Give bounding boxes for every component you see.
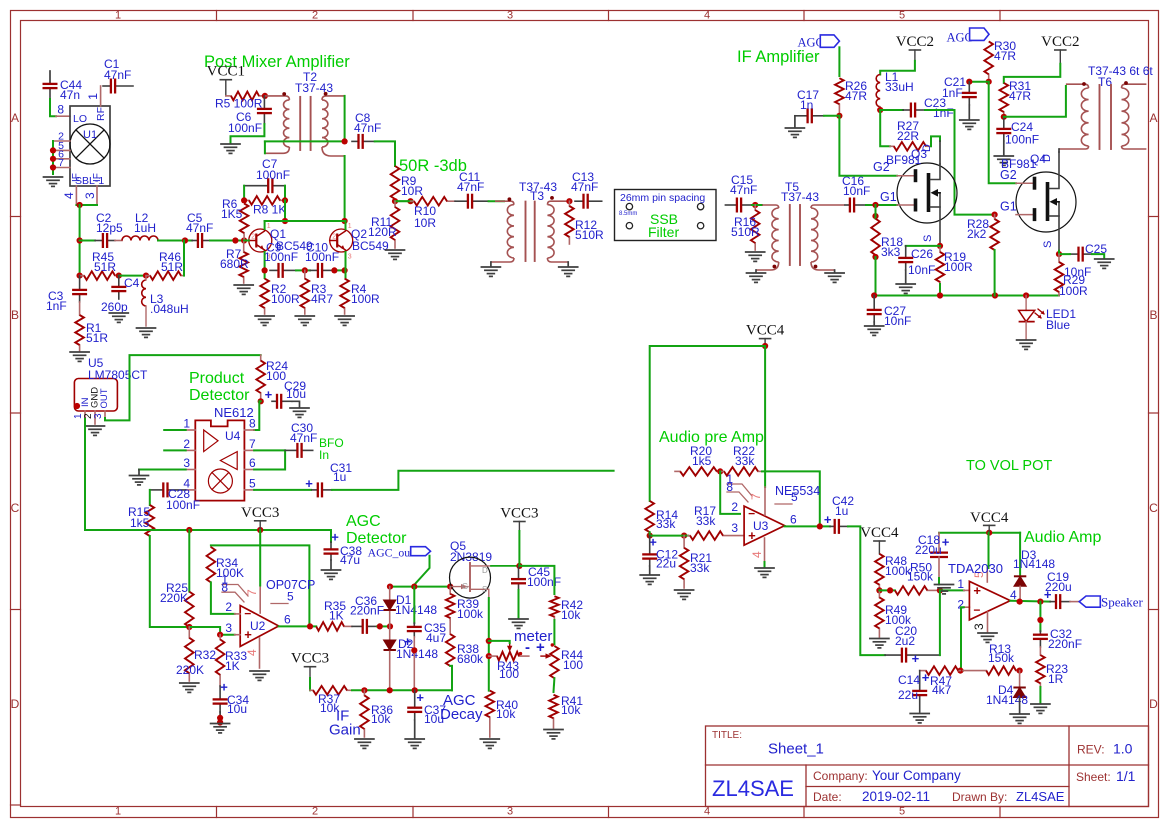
wire pin1 stub (940, 589, 964, 591)
svg-text:47R: 47R (1009, 89, 1031, 103)
svg-text:1n: 1n (800, 98, 813, 112)
resistor R34 (207, 545, 216, 582)
pin U2-1/8 stubs (222, 585, 248, 603)
svg-text:4R7: 4R7 (311, 292, 333, 306)
transistor Q4 (1016, 152, 1076, 251)
svg-text:120R: 120R (368, 225, 397, 239)
pin TDA-1 (964, 589, 970, 591)
svg-text:100nF: 100nF (264, 250, 298, 264)
svg-text:Company:: Company: (813, 769, 868, 783)
label C28 (166, 487, 200, 512)
op-amp U6 TDA2030 (969, 581, 1010, 620)
wire C45 gnd lead (518, 590, 520, 618)
svg-text:Q4: Q4 (1030, 152, 1046, 166)
label R34 (216, 556, 244, 580)
svg-text:4: 4 (245, 649, 259, 656)
plus C35 (404, 634, 412, 649)
wire C36 to D1 (377, 625, 390, 627)
svg-text:RF: RF (95, 107, 107, 121)
resistor R30 (984, 41, 993, 78)
svg-text:47nF: 47nF (186, 221, 213, 235)
wire C18 gnd (938, 578, 940, 585)
lead D2 top (389, 626, 391, 640)
junction out node (307, 623, 313, 629)
svg-text:1.0: 1.0 (1113, 741, 1133, 757)
svg-text:3k3: 3k3 (881, 245, 901, 259)
capacitor C2 (95, 233, 115, 248)
svg-text:+: + (536, 639, 545, 656)
ground C4 (109, 313, 128, 322)
pin U1-7 (53, 167, 70, 169)
junction R47 right (957, 668, 963, 674)
capacitor C3 (72, 276, 87, 302)
pinnum U1-5 (58, 140, 64, 152)
label R35 (324, 599, 346, 623)
wire C29 gnd (292, 401, 300, 407)
label U2 (250, 619, 266, 633)
label LED1 (1046, 307, 1076, 332)
label BF981 Q4 (1001, 157, 1037, 171)
svg-text:TDA2030: TDA2030 (948, 561, 1003, 576)
wire C38 drop (330, 530, 332, 542)
wire IF bus down (79, 205, 81, 276)
svg-text:100: 100 (563, 658, 583, 672)
label T6 (1088, 64, 1153, 89)
svg-text:+: + (331, 530, 339, 545)
resistor R48 (875, 554, 884, 589)
svg-text:33k: 33k (696, 514, 716, 528)
svg-text:100nF: 100nF (305, 250, 339, 264)
ground R23 (1031, 704, 1050, 713)
capacitor C4 (111, 276, 126, 299)
junction R45 node (77, 273, 83, 279)
resistor R32 (185, 627, 194, 681)
R43 wiper (507, 641, 522, 655)
svg-text:33k: 33k (735, 454, 755, 468)
pinnum U4-7 (249, 437, 256, 451)
wire VCC3c down (518, 531, 520, 566)
label R47 (930, 674, 952, 697)
junction C21 top (966, 79, 972, 85)
wire C17 gnd (794, 116, 796, 127)
junction base node (232, 237, 247, 243)
plus C34 (220, 680, 228, 695)
resistor R28 (990, 215, 999, 250)
resistor R19 (936, 248, 945, 284)
label G1 Q4 (1000, 200, 1017, 214)
label D4 (986, 683, 1028, 707)
wire R38 bottom (450, 665, 452, 667)
svg-text:C4: C4 (124, 276, 140, 290)
svg-text:C26: C26 (911, 247, 933, 261)
capacitor C20 (885, 648, 940, 663)
pinnum U1-1 (86, 93, 100, 100)
svg-text:10R: 10R (414, 216, 436, 230)
capacitor C9 (270, 263, 296, 278)
svg-text:LO: LO (73, 113, 87, 125)
wire C23 right (925, 110, 995, 215)
svg-text:47n: 47n (60, 88, 80, 102)
ground C14 (910, 714, 929, 723)
pinnum TDA-2 (957, 598, 964, 612)
svg-text:22u: 22u (656, 557, 676, 571)
svg-text:4: 4 (750, 551, 764, 558)
pinnum U2-2 (225, 600, 232, 614)
label R15 (128, 505, 150, 530)
label L3 (150, 292, 189, 316)
svg-text:8: 8 (57, 103, 64, 117)
pinnum U2-7 (245, 589, 259, 596)
svg-text:1nF: 1nF (933, 106, 954, 120)
wire R15 down (150, 536, 190, 627)
wire C26 gnd (905, 270, 907, 283)
label R19 (944, 250, 973, 274)
label C24 (1005, 120, 1039, 147)
label R42 (561, 598, 583, 622)
label C18 (915, 533, 942, 557)
svg-text:Sheet_1: Sheet_1 (768, 741, 824, 758)
junction pin3 node (217, 632, 223, 638)
capacitor C17 (795, 108, 824, 123)
svg-text:1/1: 1/1 (1116, 768, 1136, 784)
svg-text:Decay: Decay (440, 706, 483, 723)
meter minus (525, 639, 530, 656)
pinnum U2-1 (221, 573, 228, 587)
junction IF node (77, 202, 83, 208)
svg-text:100R: 100R (1059, 284, 1088, 298)
wire source bus (874, 295, 1059, 297)
resistor R9 (391, 166, 400, 201)
resistor R4 (340, 279, 349, 314)
resistor R46 (146, 271, 184, 280)
junction R45-C4 (116, 273, 122, 279)
label Q1 (270, 227, 313, 253)
junction R31 bottom (1001, 114, 1007, 120)
pin U4-7 (244, 449, 254, 451)
junction U1 pin5-7 (50, 147, 56, 170)
svg-text:TO VOL POT: TO VOL POT (966, 458, 1052, 474)
svg-text:VCC1: VCC1 (207, 64, 245, 80)
wire T2 right top down (344, 96, 346, 141)
svg-text:G1: G1 (880, 190, 897, 204)
label C26 (908, 247, 935, 277)
wire C27 gnd (873, 322, 875, 325)
wire C20 to pin1 node (939, 590, 941, 655)
svg-text:3: 3 (183, 456, 190, 470)
label R24 (266, 359, 288, 383)
svg-text:3: 3 (507, 10, 513, 22)
pinnum TDA-4 (1010, 588, 1017, 602)
pin U1-4 (75, 186, 77, 205)
svg-text:220u: 220u (915, 543, 942, 557)
label R32 (176, 648, 216, 677)
pin U2-4 (259, 638, 261, 668)
svg-text:6: 6 (790, 513, 797, 527)
pinnum TDA-1 (957, 577, 964, 591)
svg-text:+: + (824, 512, 832, 527)
wire AGC1 down (838, 47, 840, 76)
note IF Gain (329, 708, 361, 739)
transformer T5 (756, 205, 845, 270)
label C37 (424, 703, 446, 726)
resistor R5 (226, 92, 265, 101)
wire R28 to bus (994, 250, 996, 296)
wire R31 to T6 (1004, 86, 1066, 117)
power VCC3 c (500, 506, 538, 532)
svg-text:510R: 510R (731, 225, 760, 239)
svg-text:10k: 10k (561, 703, 581, 717)
svg-text:4u7: 4u7 (426, 631, 446, 645)
wire C38 gnd (330, 560, 332, 569)
plus C12 (649, 535, 657, 550)
svg-text:220nF: 220nF (1048, 637, 1082, 651)
svg-text:100nF: 100nF (527, 575, 561, 589)
svg-text:100nF: 100nF (1005, 133, 1039, 147)
junction C34 gnd (217, 715, 223, 726)
wire R24 to pin8 (254, 401, 261, 430)
wire D3 top (1019, 533, 1021, 575)
ground C38 (322, 570, 341, 579)
label R11 (368, 215, 397, 239)
svg-text:1K5: 1K5 (221, 207, 243, 221)
pin U1-2 (53, 140, 70, 142)
svg-text:51R: 51R (161, 260, 183, 274)
capacitor C28 (150, 482, 186, 497)
label R2 (271, 282, 300, 306)
svg-text:R32: R32 (194, 648, 216, 662)
wire wiper tap (489, 641, 510, 643)
label R44 (561, 648, 583, 672)
junction R18 bottom (872, 254, 878, 260)
label T2 (295, 70, 333, 95)
capacitor C45 (511, 566, 526, 590)
svg-text:1N4148: 1N4148 (986, 693, 1028, 707)
pin U2-2 (235, 613, 241, 615)
svg-text:10k: 10k (561, 608, 581, 622)
wire VCC3b down (309, 678, 311, 690)
resistor R47 (920, 666, 961, 675)
svg-text:B: B (11, 308, 19, 322)
svg-text:T37-43: T37-43 (781, 190, 819, 204)
pin U1-6 (53, 158, 70, 160)
svg-text:D: D (482, 566, 488, 575)
wire U4 pin2 stub (164, 449, 186, 451)
junction pin1 node (937, 587, 943, 593)
capacitor C12 (642, 536, 657, 566)
label R46 (159, 250, 183, 274)
label C14 (898, 673, 920, 702)
label Q2 (351, 227, 389, 253)
svg-text:4: 4 (62, 192, 76, 199)
pinnum U2-4 (245, 649, 259, 656)
label R12 (575, 218, 604, 242)
lead C32-R23 (1039, 647, 1041, 655)
pin U4-3 (186, 469, 196, 471)
resistor R20 (675, 467, 720, 476)
wire Q1 emitter (264, 252, 266, 278)
junction R13 right (1017, 668, 1023, 674)
pinnum U3-1 (726, 472, 733, 486)
wire AGC line (390, 586, 452, 588)
wire C15 node (752, 204, 762, 206)
wire Q1 base (244, 240, 249, 242)
capacitor C1 (103, 79, 133, 94)
transistor Q1 (249, 223, 272, 261)
svg-text:33k: 33k (656, 517, 676, 531)
wire C6 to gnd (231, 124, 265, 143)
capacitor C24 (996, 117, 1011, 141)
wire R23 gnd (1039, 687, 1041, 703)
svg-text:8: 8 (726, 480, 733, 494)
junction Q5 drain (516, 563, 522, 569)
junction C8 node (342, 138, 348, 144)
label R49 (885, 603, 912, 627)
wire U2 out (279, 625, 317, 627)
pinnum U3-3 (731, 521, 738, 535)
flag AGC 1 (820, 35, 839, 47)
resistor R17 (688, 531, 744, 540)
capacitor C13 (575, 194, 602, 209)
svg-text:3: 3 (93, 413, 104, 419)
resistor R39 (446, 587, 455, 620)
plus C37 (416, 690, 424, 705)
svg-text:S: S (482, 585, 487, 594)
capacitor C16 (845, 198, 866, 213)
label C38 (340, 544, 362, 567)
label D Q4 (1041, 154, 1053, 162)
svg-text:3: 3 (507, 806, 513, 818)
junction C15-R16 (752, 202, 758, 208)
junction Q3 source (937, 243, 943, 249)
resistor R8 (244, 196, 285, 205)
junction R20-R22 (717, 468, 723, 474)
pin TDA-2 (964, 606, 970, 608)
svg-text:260p: 260p (101, 300, 128, 314)
resistor R50 (895, 586, 940, 595)
wire R22 to out (762, 471, 820, 526)
resistor R37 (310, 686, 352, 695)
ground R1 (70, 352, 89, 361)
pinnum U5-1 (73, 413, 84, 419)
diode D2 (384, 640, 396, 650)
resistor R42 (550, 596, 559, 620)
svg-text:5: 5 (287, 590, 294, 604)
wire R48 node (879, 589, 895, 591)
wire R18 to bus (875, 257, 877, 296)
resistor R3 (301, 270, 310, 314)
svg-text:Speaker: Speaker (1101, 595, 1144, 610)
label C35 (424, 621, 446, 645)
ground C25 (1095, 259, 1114, 268)
label R16 (731, 215, 760, 239)
svg-text:VCC3: VCC3 (241, 505, 279, 521)
label R3 (311, 282, 333, 306)
label C25 (1064, 242, 1107, 279)
wire fb to pin2 (720, 471, 740, 514)
wire pin5 out (254, 489, 311, 491)
ground D4 (1010, 714, 1029, 723)
svg-text:1K: 1K (329, 609, 344, 623)
wire drain to R42 (519, 566, 554, 594)
label G2 Q4 (1000, 168, 1017, 182)
capacitor C38 (324, 542, 339, 560)
junction R8 ends (241, 197, 288, 203)
svg-text:Detector: Detector (189, 387, 250, 404)
wire C44 to pin8 (50, 99, 56, 116)
ground C45 (509, 619, 528, 628)
resistor R6 (240, 204, 249, 241)
resistor R2 (260, 279, 269, 314)
svg-text:12p5: 12p5 (96, 221, 123, 235)
label R20 (690, 444, 712, 468)
svg-text:22R: 22R (897, 129, 919, 143)
resistor R26 (835, 78, 844, 113)
wire TDA out (1010, 600, 1050, 603)
ground R4 (335, 316, 354, 325)
svg-text:1nF: 1nF (942, 86, 963, 100)
wire R46 right up (183, 241, 185, 276)
svg-text:100R: 100R (944, 260, 973, 274)
op-amp U2 (240, 606, 279, 647)
note meter (514, 628, 552, 645)
pinnum U3-5 (791, 490, 798, 504)
svg-text:2: 2 (183, 437, 190, 451)
svg-text:U4: U4 (225, 429, 241, 443)
label OP07CP (266, 578, 315, 592)
label C11 (457, 170, 484, 194)
label R25 (160, 581, 188, 605)
IC U4 NE612 (195, 420, 244, 500)
wire R8 right down (284, 200, 286, 221)
svg-text:G: G (462, 582, 468, 591)
junction coll bus (282, 218, 288, 224)
resistor R40 (486, 691, 495, 737)
svg-text:+: + (265, 387, 273, 402)
svg-text:33k: 33k (690, 561, 710, 575)
junction C32 top (1037, 617, 1043, 623)
junction R3 top (302, 267, 308, 273)
svg-text:47u: 47u (340, 553, 360, 567)
svg-text:47nF: 47nF (354, 121, 381, 135)
pin U3-7 (764, 487, 766, 515)
wire R34 to pin2 (211, 582, 235, 614)
svg-text:3: 3 (83, 192, 97, 199)
flag Speaker (1079, 596, 1100, 607)
wire T6 to Q4 drain (1058, 149, 1060, 152)
label AGC 1 (798, 36, 824, 50)
svg-text:+: + (973, 583, 981, 598)
svg-text:6: 6 (249, 456, 256, 470)
resistor R25 (185, 592, 194, 627)
svg-text:C: C (11, 501, 20, 515)
ground R2 (255, 316, 274, 325)
svg-text:150k: 150k (907, 570, 934, 584)
svg-text:2u2: 2u2 (895, 634, 915, 648)
pin U2-5 stub (271, 603, 288, 605)
ground C27 (865, 326, 884, 335)
svg-text:4: 4 (704, 806, 710, 818)
svg-text:33uH: 33uH (885, 80, 914, 94)
capacitor C14 (912, 671, 927, 712)
junction G1 Q3 (872, 202, 878, 219)
wire G2 Q3 feed (839, 116, 897, 176)
wire C42 down (848, 526, 885, 655)
pin U5-2 (94, 411, 96, 424)
label C21 (942, 75, 966, 100)
transistor Q2 (330, 223, 353, 261)
label Q5 (450, 539, 492, 564)
ground T3 right (559, 267, 578, 276)
